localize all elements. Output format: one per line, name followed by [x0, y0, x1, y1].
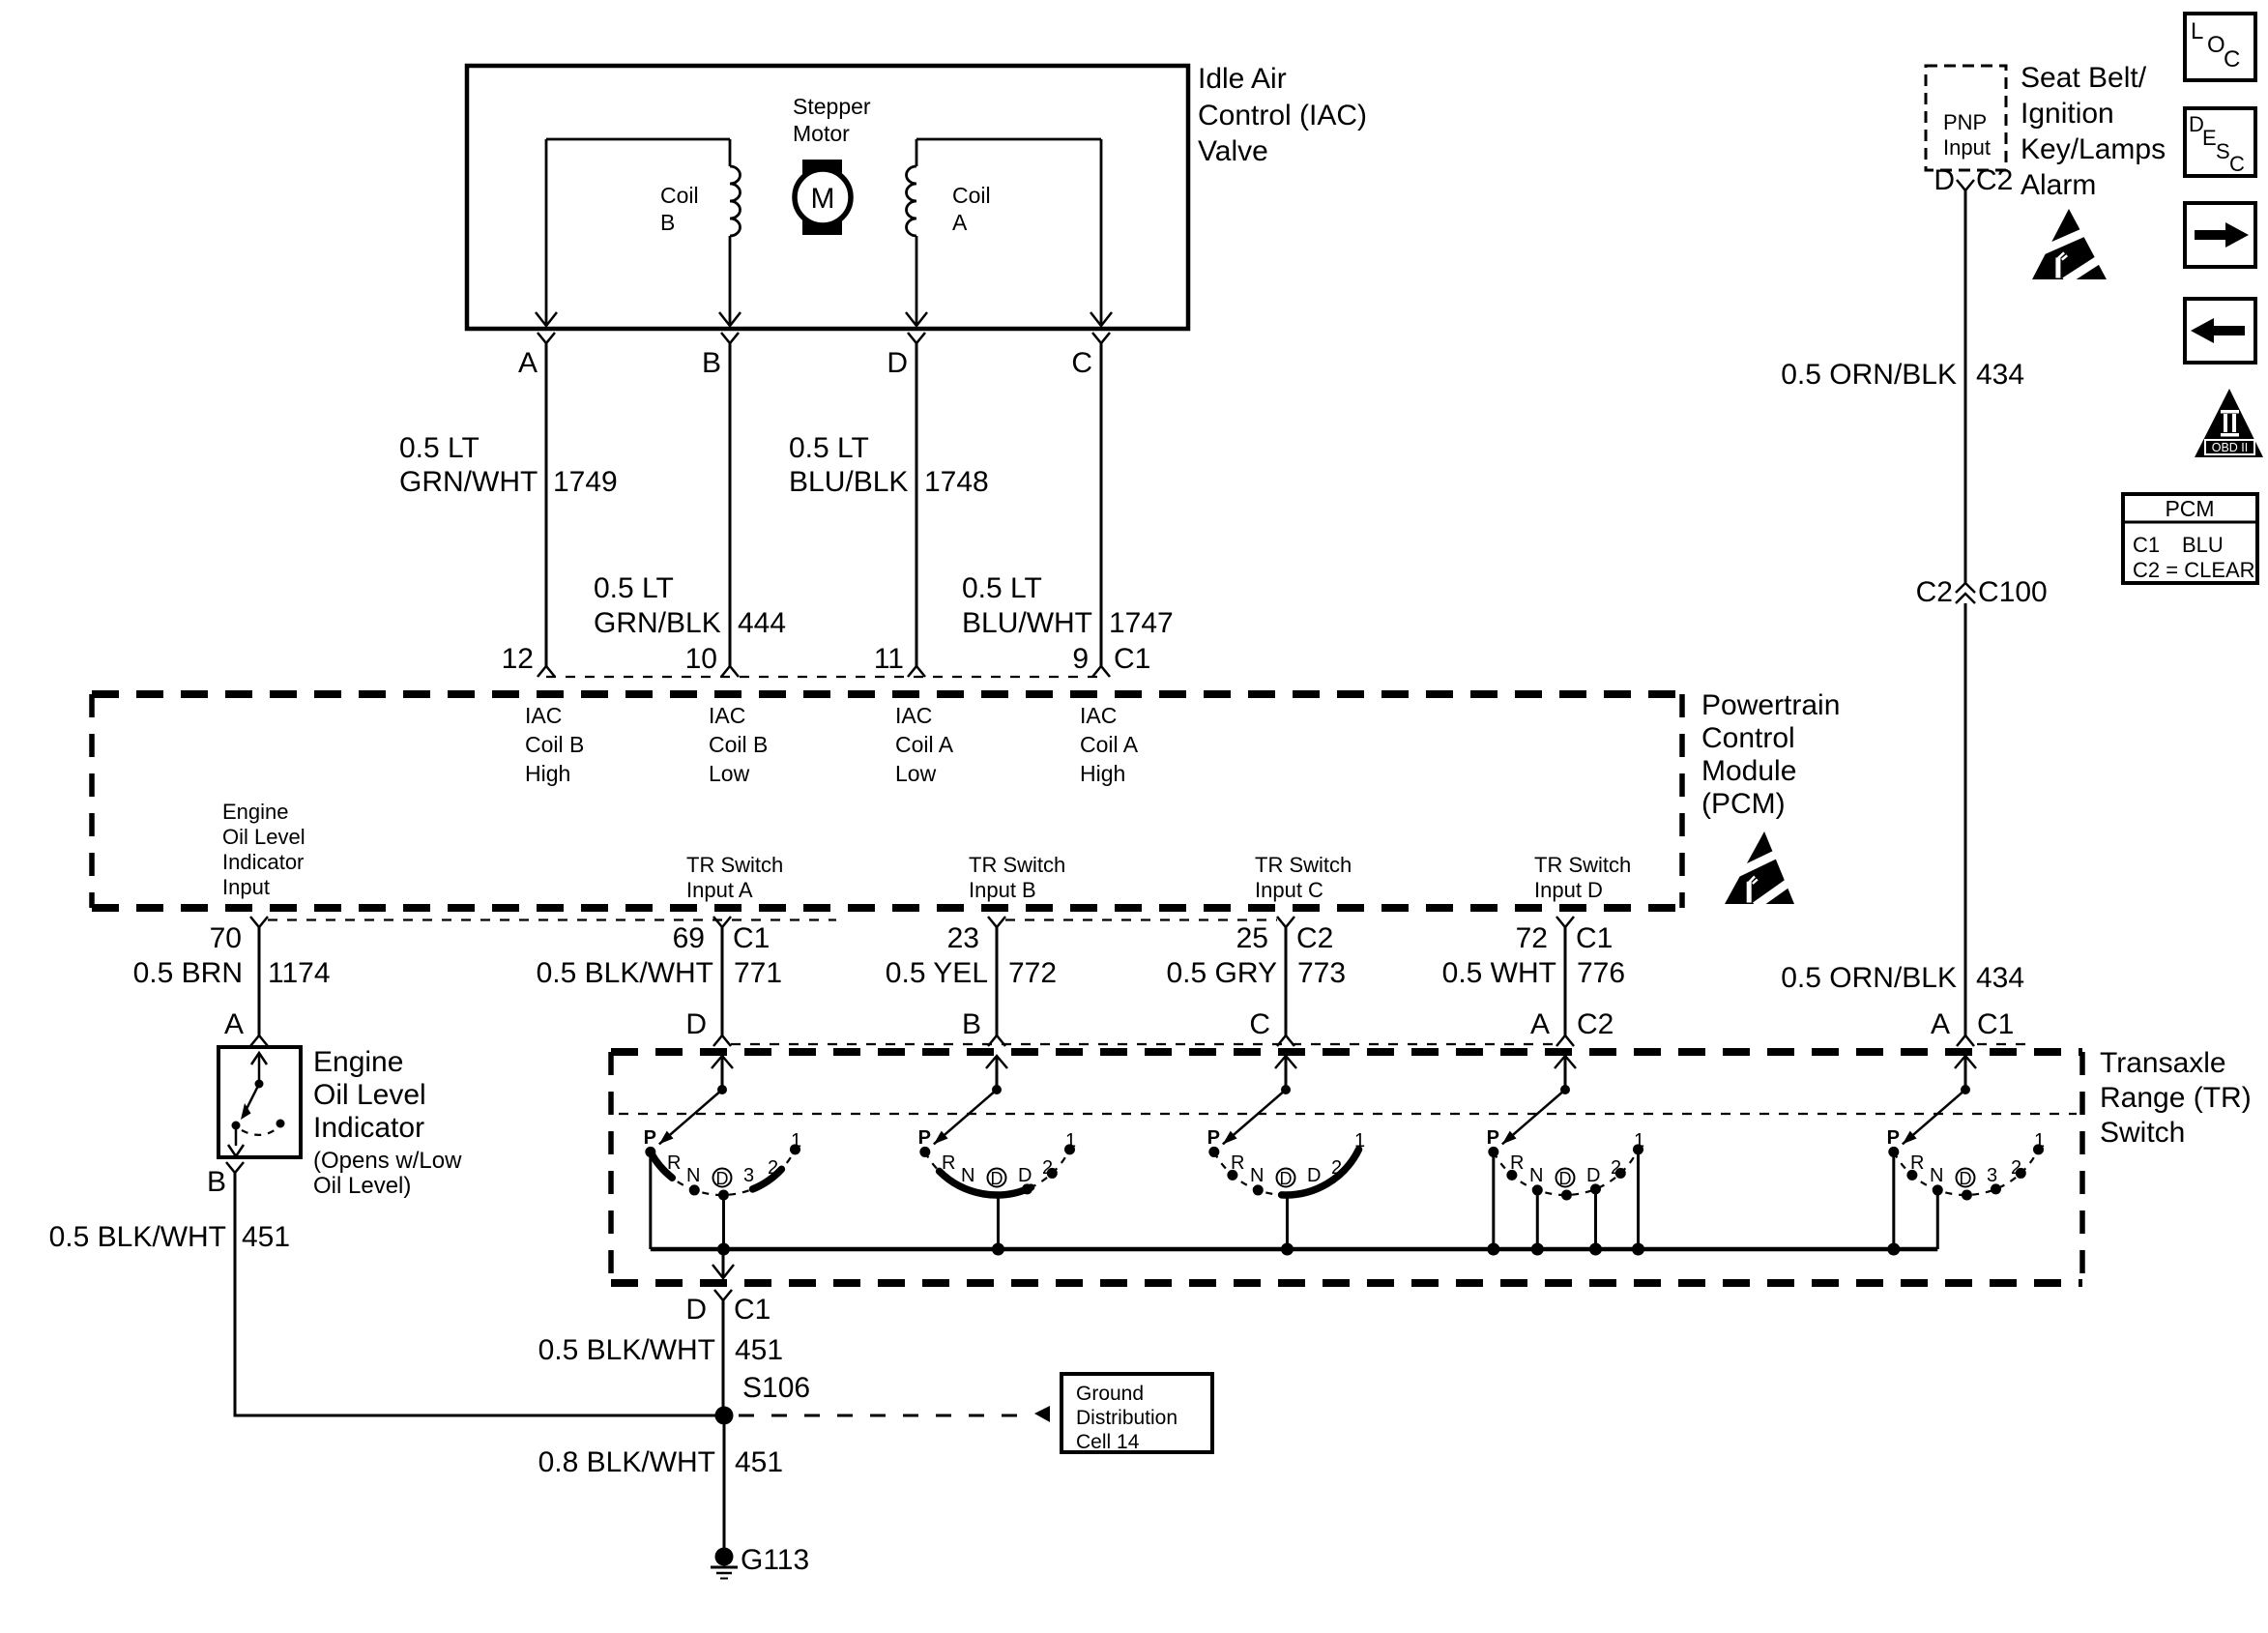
svg-text:0.5 LT: 0.5 LT — [789, 432, 869, 464]
svg-text:IAC: IAC — [525, 703, 562, 728]
svg-text:Low: Low — [709, 761, 750, 786]
svg-text:11: 11 — [874, 643, 904, 675]
svg-text:0.5 BLK/WHT: 0.5 BLK/WHT — [538, 1334, 715, 1366]
svg-text:0.5 ORN/BLK: 0.5 ORN/BLK — [1781, 962, 1957, 994]
svg-text:0.5 BRN: 0.5 BRN — [133, 957, 243, 989]
svg-text:G113: G113 — [741, 1544, 809, 1576]
svg-text:Control: Control — [1701, 722, 1795, 754]
svg-text:C2: C2 — [1976, 164, 2013, 196]
svg-text:Input D: Input D — [1534, 878, 1603, 902]
svg-text:D: D — [887, 347, 908, 379]
svg-text:B: B — [660, 210, 675, 235]
svg-text:434: 434 — [1976, 359, 2024, 391]
svg-text:Transaxle: Transaxle — [2100, 1047, 2226, 1079]
svg-text:C2: C2 — [1577, 1008, 1614, 1040]
svg-text:M: M — [811, 183, 835, 215]
svg-text:D: D — [1280, 1169, 1293, 1188]
svg-text:R: R — [942, 1152, 955, 1174]
svg-text:B: B — [207, 1166, 226, 1198]
svg-text:C: C — [2229, 152, 2245, 176]
svg-text:0.5 YEL: 0.5 YEL — [886, 957, 988, 989]
svg-text:0.5 BLK/WHT: 0.5 BLK/WHT — [537, 957, 713, 989]
svg-text:Coil B: Coil B — [525, 732, 584, 757]
svg-text:A: A — [224, 1008, 244, 1040]
svg-text:(Opens w/Low: (Opens w/Low — [313, 1148, 462, 1174]
svg-text:2: 2 — [1331, 1157, 1342, 1179]
svg-text:Module: Module — [1701, 755, 1796, 787]
svg-text:Distribution: Distribution — [1076, 1407, 1178, 1429]
svg-text:IAC: IAC — [709, 703, 745, 728]
svg-text:25: 25 — [1236, 922, 1268, 954]
svg-text:3: 3 — [743, 1165, 754, 1186]
svg-text:Engine: Engine — [222, 800, 289, 824]
svg-text:Seat Belt/: Seat Belt/ — [2021, 62, 2147, 94]
svg-text:Cell 14: Cell 14 — [1076, 1431, 1140, 1453]
svg-text:N: N — [686, 1165, 700, 1186]
svg-text:0.5 LT: 0.5 LT — [399, 432, 480, 464]
svg-text:773: 773 — [1297, 957, 1346, 989]
svg-text:C1: C1 — [1114, 643, 1150, 675]
svg-text:D: D — [1559, 1169, 1572, 1188]
svg-text:C: C — [2224, 46, 2240, 73]
svg-text:S: S — [2216, 139, 2230, 163]
svg-text:1: 1 — [1354, 1130, 1365, 1152]
svg-text:BLU/BLK: BLU/BLK — [789, 466, 908, 498]
svg-text:434: 434 — [1976, 962, 2024, 994]
svg-text:D: D — [1586, 1165, 1600, 1186]
svg-text:BLU/WHT: BLU/WHT — [962, 607, 1092, 639]
svg-text:TR Switch: TR Switch — [686, 853, 783, 877]
svg-text:Input A: Input A — [686, 878, 753, 902]
svg-text:GRN/WHT: GRN/WHT — [399, 466, 538, 498]
svg-text:N: N — [961, 1165, 974, 1186]
svg-text:771: 771 — [734, 957, 782, 989]
svg-text:Coil: Coil — [660, 183, 699, 208]
svg-text:E: E — [2202, 126, 2217, 150]
svg-text:451: 451 — [735, 1446, 783, 1478]
svg-text:C: C — [1071, 347, 1092, 379]
svg-text:C2: C2 — [1916, 576, 1953, 608]
svg-text:D: D — [1934, 164, 1955, 196]
svg-text:70: 70 — [210, 922, 242, 954]
svg-text:Input: Input — [222, 875, 270, 899]
svg-text:D: D — [991, 1169, 1003, 1188]
svg-text:Ignition: Ignition — [2021, 98, 2114, 130]
svg-text:Input: Input — [1943, 135, 1991, 160]
svg-text:TR Switch: TR Switch — [1255, 853, 1352, 877]
svg-text:0.8 BLK/WHT: 0.8 BLK/WHT — [538, 1446, 715, 1478]
svg-text:D: D — [685, 1008, 707, 1040]
svg-text:C1: C1 — [1576, 922, 1613, 954]
svg-text:High: High — [1080, 761, 1125, 786]
svg-text:Low: Low — [895, 761, 937, 786]
svg-text:D: D — [1018, 1165, 1032, 1186]
svg-text:12: 12 — [502, 643, 534, 675]
svg-text:N: N — [1930, 1165, 1943, 1186]
svg-text:A: A — [952, 210, 968, 235]
svg-text:Motor: Motor — [793, 121, 850, 146]
svg-text:772: 772 — [1008, 957, 1057, 989]
svg-text:C2: C2 — [1296, 922, 1333, 954]
svg-text:Input C: Input C — [1255, 878, 1323, 902]
svg-text:PCM: PCM — [2165, 496, 2214, 521]
svg-text:Ground: Ground — [1076, 1383, 1144, 1405]
svg-text:N: N — [1250, 1165, 1264, 1186]
svg-text:Indicator: Indicator — [313, 1112, 424, 1144]
svg-text:2: 2 — [768, 1157, 778, 1179]
svg-text:P: P — [1887, 1127, 1900, 1149]
svg-text:1748: 1748 — [924, 466, 989, 498]
svg-text:Oil Level): Oil Level) — [313, 1173, 411, 1199]
svg-text:Coil: Coil — [952, 183, 991, 208]
svg-text:Coil A: Coil A — [895, 732, 954, 757]
svg-text:TR Switch: TR Switch — [969, 853, 1065, 877]
svg-text:1749: 1749 — [553, 466, 618, 498]
svg-text:P: P — [1487, 1127, 1499, 1149]
svg-text:Engine: Engine — [313, 1046, 403, 1078]
svg-text:Switch: Switch — [2100, 1117, 2185, 1149]
svg-text:High: High — [525, 761, 570, 786]
svg-text:Stepper: Stepper — [793, 94, 871, 119]
svg-text:776: 776 — [1577, 957, 1625, 989]
svg-text:B: B — [962, 1008, 981, 1040]
svg-text:D: D — [685, 1294, 707, 1326]
svg-text:69: 69 — [673, 922, 705, 954]
svg-text:Coil A: Coil A — [1080, 732, 1139, 757]
svg-text:Powertrain: Powertrain — [1701, 689, 1840, 721]
svg-text:A: A — [1530, 1008, 1550, 1040]
svg-text:P: P — [644, 1127, 656, 1149]
svg-text:R: R — [667, 1152, 681, 1174]
svg-text:0.5 WHT: 0.5 WHT — [1442, 957, 1556, 989]
svg-text:OBD II: OBD II — [2212, 441, 2249, 454]
svg-text:N: N — [1529, 1165, 1543, 1186]
svg-text:Alarm: Alarm — [2021, 169, 2096, 201]
svg-text:451: 451 — [735, 1334, 783, 1366]
svg-text:C100: C100 — [1978, 576, 2048, 608]
svg-text:Oil Level: Oil Level — [222, 825, 305, 849]
svg-text:C1: C1 — [734, 1294, 771, 1326]
svg-text:TR Switch: TR Switch — [1534, 853, 1631, 877]
svg-text:Key/Lamps: Key/Lamps — [2021, 133, 2166, 165]
svg-text:444: 444 — [738, 607, 786, 639]
svg-text:A: A — [1931, 1008, 1950, 1040]
svg-text:0.5 LT: 0.5 LT — [962, 572, 1042, 604]
svg-text:Range (TR): Range (TR) — [2100, 1082, 2252, 1114]
svg-text:Oil Level: Oil Level — [313, 1079, 426, 1111]
svg-text:S106: S106 — [742, 1372, 810, 1404]
svg-text:C1: C1 — [2133, 533, 2160, 557]
svg-text:BLU: BLU — [2182, 533, 2224, 557]
svg-text:GRN/BLK: GRN/BLK — [594, 607, 721, 639]
svg-text:C2 = CLEAR: C2 = CLEAR — [2133, 558, 2255, 582]
svg-text:C1: C1 — [1977, 1008, 2014, 1040]
svg-text:10: 10 — [685, 643, 717, 675]
svg-text:0.5 LT: 0.5 LT — [594, 572, 674, 604]
svg-text:1747: 1747 — [1109, 607, 1174, 639]
svg-text:IAC: IAC — [895, 703, 932, 728]
svg-text:9: 9 — [1072, 643, 1089, 675]
svg-text:0.5 GRY: 0.5 GRY — [1166, 957, 1277, 989]
svg-text:B: B — [702, 347, 721, 379]
svg-text:Input B: Input B — [969, 878, 1036, 902]
svg-text:Control (IAC): Control (IAC) — [1198, 100, 1367, 131]
svg-text:L: L — [2191, 18, 2203, 44]
svg-text:D: D — [716, 1169, 729, 1188]
svg-text:C1: C1 — [733, 922, 770, 954]
svg-text:0.5 BLK/WHT: 0.5 BLK/WHT — [49, 1221, 226, 1253]
svg-text:72: 72 — [1516, 922, 1548, 954]
svg-text:A: A — [518, 347, 538, 379]
svg-text:Idle Air: Idle Air — [1198, 63, 1287, 95]
svg-text:(PCM): (PCM) — [1701, 788, 1786, 820]
svg-text:P: P — [918, 1127, 931, 1149]
svg-text:0.5 ORN/BLK: 0.5 ORN/BLK — [1781, 359, 1957, 391]
svg-text:Coil B: Coil B — [709, 732, 768, 757]
svg-text:451: 451 — [242, 1221, 290, 1253]
svg-text:1174: 1174 — [268, 957, 331, 989]
svg-text:P: P — [1207, 1127, 1220, 1149]
svg-text:3: 3 — [1987, 1165, 1997, 1186]
svg-text:O: O — [2207, 32, 2225, 58]
svg-text:C: C — [1249, 1008, 1270, 1040]
svg-text:Valve: Valve — [1198, 135, 1268, 167]
svg-text:PNP: PNP — [1943, 110, 1987, 134]
svg-text:D: D — [1960, 1169, 1972, 1188]
svg-text:Indicator: Indicator — [222, 850, 304, 874]
svg-text:23: 23 — [947, 922, 979, 954]
svg-text:D: D — [1307, 1165, 1321, 1186]
svg-text:IAC: IAC — [1080, 703, 1117, 728]
